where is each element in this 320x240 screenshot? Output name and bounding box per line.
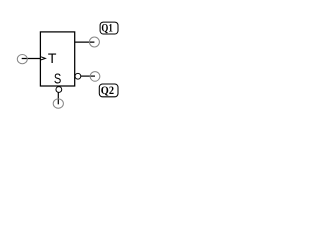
svg-text:S: S — [54, 72, 62, 88]
svg-text:Q1: Q1 — [101, 23, 113, 35]
svg-text:T: T — [48, 50, 57, 66]
svg-text:Q2: Q2 — [101, 85, 114, 97]
